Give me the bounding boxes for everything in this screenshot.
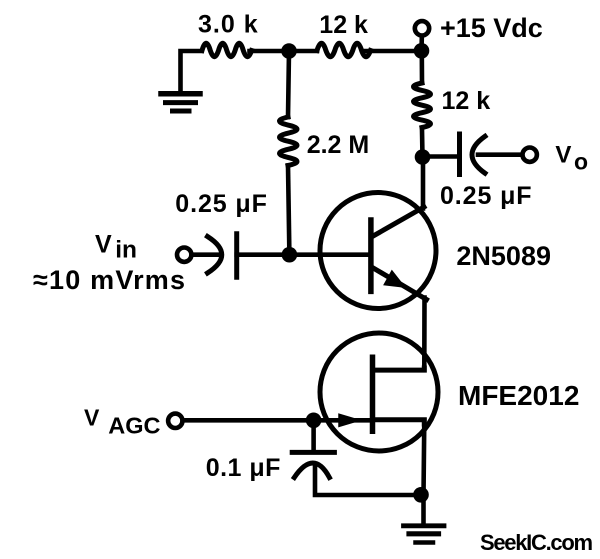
terminal +15 Vdc [419, 38, 424, 50]
node D junction on gate wire [306, 413, 322, 429]
node B junction [415, 149, 431, 165]
svg-text:2.2 M: 2.2 M [307, 131, 370, 159]
wire top rail from ground corner to node A [181, 51, 202, 92]
wire R4 down to node C [288, 166, 289, 255]
wire C1 to base of Q1 with node C [237, 252, 370, 257]
Q2 channel bar [370, 357, 376, 431]
svg-text:3.0 k: 3.0 k [198, 11, 259, 39]
terminal Vo [523, 148, 537, 162]
svg-text:SeekIC.com: SeekIC.com [480, 530, 592, 555]
ground GND2 bottom [404, 526, 445, 543]
Q2 source stroke [373, 420, 425, 424]
wire emitter to Q2 drain [422, 298, 427, 371]
svg-text:≈10 mVrms: ≈10 mVrms [33, 265, 186, 295]
gate arrow [339, 414, 360, 426]
wire collector to node B [421, 157, 426, 209]
wire node to R3 [419, 51, 424, 82]
transistor Q2 MFE2012 circle [320, 333, 438, 451]
Q1 collector stroke [373, 207, 424, 236]
wire node A to R2 [250, 49, 318, 54]
svg-text:0.25 μF: 0.25 μF [440, 182, 532, 210]
Q1 emitter arrow [384, 271, 404, 287]
svg-text:+15 Vdc: +15 Vdc [440, 13, 543, 43]
Q1 emitter stroke [373, 268, 427, 300]
transistor Q1 2N5089 circle [320, 193, 436, 309]
terminal V AGC [168, 414, 182, 428]
svg-text:0.25 μF: 0.25 μF [175, 190, 267, 218]
svg-text:MFE2012: MFE2012 [458, 380, 579, 411]
resistor R4 2.2 M [280, 117, 298, 166]
wire node E to ground [421, 495, 426, 524]
wire C2 to Vo terminal [478, 152, 521, 157]
wire Vin terminal to C1 [192, 252, 220, 257]
node A junction [281, 43, 297, 59]
resistor R2 12 k [317, 43, 371, 56]
node +15 junction [414, 43, 430, 59]
svg-text:0.1 μF: 0.1 μF [206, 454, 281, 482]
terminal Vin [177, 248, 191, 262]
capacitor C3 0.1 uF [292, 452, 334, 477]
svg-text:2N5089: 2N5089 [456, 241, 551, 271]
wire node D down to C3 [311, 420, 316, 450]
node E ground junction [413, 487, 429, 503]
Q1 base bar [368, 220, 374, 291]
capacitor C2 0.25 uF output [460, 134, 486, 175]
svg-text:12 k: 12 k [319, 11, 368, 39]
ground GND1 top-left [161, 94, 200, 111]
Q2 drain stroke [373, 368, 425, 370]
wire gate from terminal to Q2 [183, 418, 373, 423]
wire R2 to node B [366, 49, 422, 54]
resistor R3 12 k vertical [414, 83, 431, 128]
wire node B to C2 plate [423, 154, 458, 159]
wire Q2 source down to ground node [421, 420, 426, 495]
resistor R1 3.0 k [202, 43, 252, 56]
capacitor C1 0.25 uF input [208, 234, 237, 278]
wire C3 bottom to ground rail [315, 464, 421, 495]
wire node A down to R4 [288, 51, 289, 117]
node C junction [282, 247, 298, 263]
svg-text:12 k: 12 k [442, 87, 491, 115]
wire R3 to node B [420, 130, 425, 157]
